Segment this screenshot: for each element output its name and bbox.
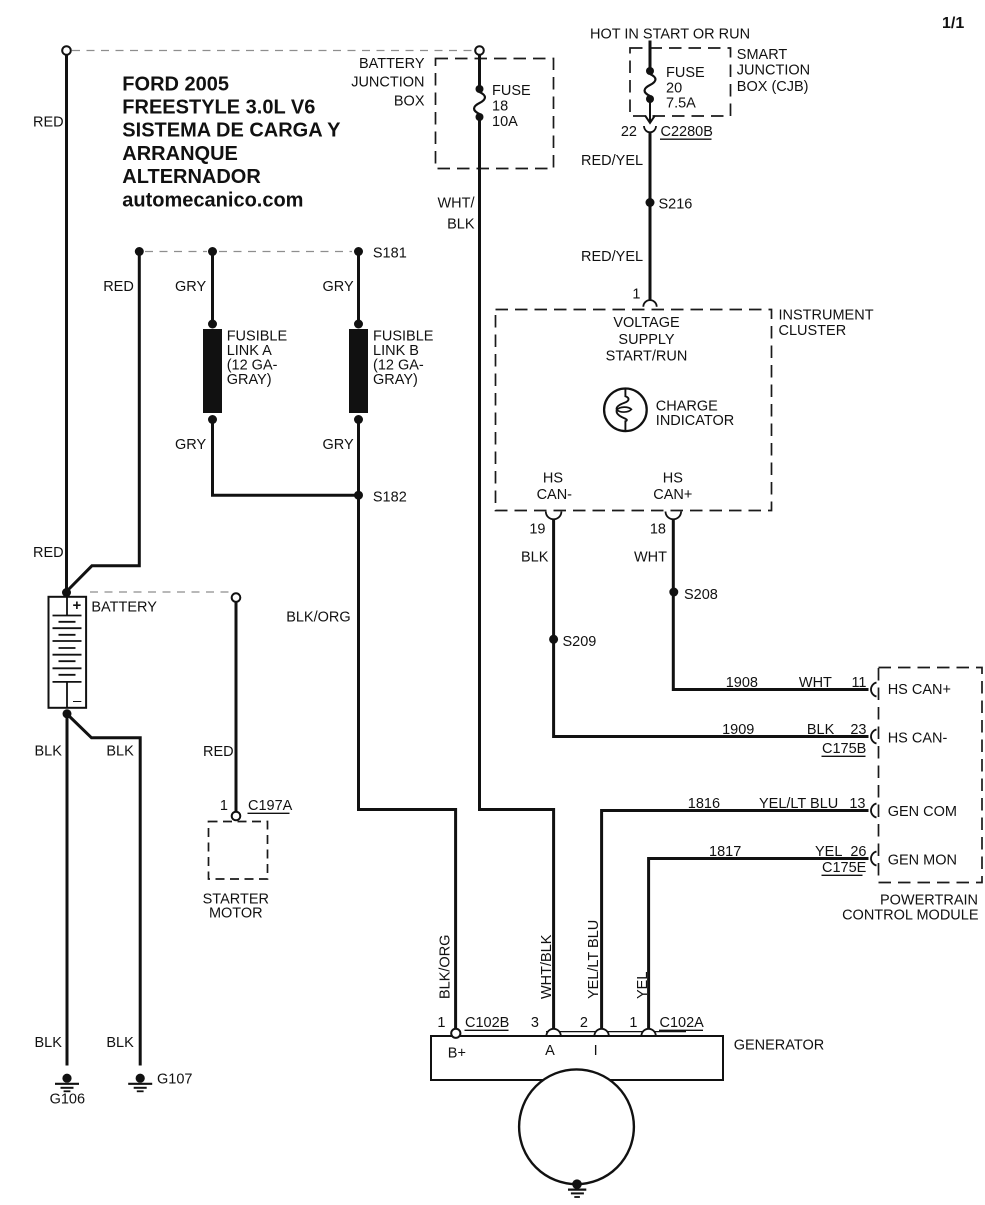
svg-text:10A: 10A [492, 114, 518, 130]
svg-text:GRY: GRY [323, 437, 354, 453]
svg-text:BLK/ORG: BLK/ORG [437, 935, 453, 999]
wire GRY to fusible link B [357, 255, 360, 322]
generator pin I dome [594, 1029, 608, 1036]
splice S181 dashed node line [145, 251, 352, 253]
svg-text:S181: S181 [373, 246, 407, 262]
svg-text:ARRANQUE: ARRANQUE [122, 143, 238, 165]
svg-text:HS CAN+: HS CAN+ [888, 682, 951, 698]
wire BLK battery to G106 [66, 714, 69, 1066]
starter motor box [209, 822, 268, 880]
svg-text:13: 13 [849, 796, 865, 812]
label charge indicator [656, 398, 734, 429]
svg-text:2: 2 [580, 1015, 588, 1031]
node circle left of battery feed [62, 46, 71, 55]
label HS CAN- [537, 470, 573, 503]
svg-text:1/1: 1/1 [942, 15, 964, 32]
svg-text:VOLTAGE: VOLTAGE [613, 315, 680, 331]
wire WHT/BLK from fuse 18 to generator pin A [480, 117, 554, 1030]
svg-text:RED: RED [203, 744, 234, 760]
fusible link A [203, 320, 222, 425]
svg-text:HS CAN-: HS CAN- [888, 731, 948, 747]
svg-text:GEN MON: GEN MON [888, 853, 957, 869]
svg-text:GEN COM: GEN COM [888, 804, 957, 820]
generator pin A dome [546, 1029, 560, 1036]
label battery junction box [351, 56, 425, 110]
PCM pin 11 cup [871, 683, 877, 697]
connector C2280B pin 22 cup [644, 126, 656, 132]
svg-text:11: 11 [851, 675, 866, 691]
wire RED to starter motor [235, 602, 238, 812]
wire YEL generator pin 1 to PCM GEN MON [649, 859, 869, 1030]
dashed node line top [72, 50, 475, 52]
fuse 20 [645, 67, 656, 103]
svg-text:CHARGE: CHARGE [656, 398, 718, 414]
svg-text:CONTROL MODULE: CONTROL MODULE [842, 908, 979, 924]
svg-text:BLK: BLK [35, 744, 63, 760]
node circle at battery junction box feed [475, 46, 484, 55]
svg-text:I: I [594, 1043, 598, 1059]
svg-text:18: 18 [650, 522, 666, 538]
svg-text:CLUSTER: CLUSTER [779, 323, 847, 339]
svg-text:ALTERNADOR: ALTERNADOR [122, 166, 261, 188]
svg-text:1817: 1817 [709, 844, 741, 860]
wire RED/YEL to instrument cluster [649, 132, 652, 301]
circuit label 1908 WHT 11 [726, 675, 867, 691]
svg-text:C175E: C175E [822, 860, 867, 876]
svg-text:26: 26 [850, 844, 866, 860]
svg-text:G106: G106 [50, 1091, 85, 1107]
PCM pin 23 cup [871, 730, 877, 744]
svg-text:GRAY): GRAY) [227, 372, 272, 388]
svg-text:1909: 1909 [722, 722, 754, 738]
svg-text:18: 18 [492, 99, 508, 115]
circuit label 1817 YEL 26 [709, 844, 867, 860]
svg-text:23: 23 [850, 722, 866, 738]
svg-text:START/RUN: START/RUN [606, 349, 688, 365]
svg-text:BLK: BLK [521, 550, 549, 566]
generator box [431, 1036, 723, 1080]
starter pin 1 circle [232, 812, 241, 821]
svg-text:YEL: YEL [815, 844, 842, 860]
ground G106 [50, 1074, 85, 1108]
svg-text:BLK: BLK [106, 1035, 134, 1051]
generator pin B+ circle [451, 1029, 460, 1038]
svg-text:RED: RED [33, 545, 64, 561]
svg-text:SISTEMA DE CARGA Y: SISTEMA DE CARGA Y [122, 120, 341, 142]
svg-text:FUSE: FUSE [666, 65, 705, 81]
svg-text:WHT/BLK: WHT/BLK [539, 934, 555, 999]
label WHT/BLK [437, 196, 475, 233]
svg-text:S209: S209 [563, 634, 597, 650]
label fuse 18 10A [492, 83, 531, 130]
wire YEL/LT BLU generator pin 2 to PCM GEN COM [602, 811, 869, 1030]
connector label C102A [659, 1015, 704, 1031]
svg-text:HOT IN START OR RUN: HOT IN START OR RUN [590, 26, 750, 42]
svg-text:WHT: WHT [634, 550, 667, 566]
label powertrain control module [842, 892, 979, 923]
label smart junction box (CJB) [737, 47, 810, 95]
wire RED left vertical [65, 55, 68, 591]
label instrument cluster [779, 308, 874, 340]
generator ground [568, 1179, 586, 1197]
svg-text:JUNCTION: JUNCTION [351, 75, 424, 91]
svg-text:7.5A: 7.5A [666, 96, 696, 112]
svg-text:FORD 2005: FORD 2005 [122, 73, 229, 95]
svg-text:FUSE: FUSE [492, 83, 531, 99]
svg-text:INSTRUMENT: INSTRUMENT [779, 308, 874, 324]
svg-text:1: 1 [437, 1015, 445, 1031]
svg-text:WHT: WHT [799, 675, 832, 691]
svg-text:+: + [73, 597, 82, 614]
starter feed node circle [232, 593, 241, 602]
splice S216 [646, 197, 693, 213]
svg-text:FREESTYLE 3.0L V6: FREESTYLE 3.0L V6 [122, 97, 315, 119]
svg-text:HS: HS [663, 470, 683, 486]
svg-text:RED/YEL: RED/YEL [581, 249, 643, 265]
circuit label 1909 BLK 23 [722, 722, 866, 738]
svg-text:BOX (CJB): BOX (CJB) [737, 79, 809, 95]
svg-text:CAN+: CAN+ [653, 487, 692, 503]
svg-text:CAN-: CAN- [537, 487, 573, 503]
svg-text:YEL/LT BLU: YEL/LT BLU [759, 796, 838, 812]
circuit label 1816 YEL/LT BLU 13 [688, 796, 866, 812]
label fuse 20 7.5A [666, 65, 705, 112]
svg-text:BLK: BLK [807, 722, 835, 738]
label voltage supply start/run [606, 315, 688, 365]
svg-text:RED: RED [33, 115, 64, 131]
svg-text:C102A: C102A [660, 1015, 705, 1031]
connector C102A line [546, 1031, 686, 1033]
smart junction box [630, 48, 731, 116]
wire into fuse 18 [478, 55, 481, 89]
svg-text:BLK/ORG: BLK/ORG [286, 610, 350, 626]
wire BLK/ORG from link B through S182 to generator B+ [359, 421, 456, 1029]
svg-text:RED/YEL: RED/YEL [581, 153, 643, 169]
splice S181 dot [354, 246, 407, 262]
svg-text:C2280B: C2280B [661, 124, 713, 140]
svg-text:BATTERY: BATTERY [91, 599, 157, 615]
wire link A bottom to S182 [213, 421, 358, 495]
svg-text:GRY: GRY [175, 279, 206, 295]
PCM pin 26 cup [871, 852, 877, 866]
svg-text:POWERTRAIN: POWERTRAIN [880, 892, 978, 908]
svg-text:HS: HS [543, 470, 563, 486]
battery [49, 597, 87, 710]
svg-text:1: 1 [632, 287, 640, 303]
title block [122, 73, 341, 211]
svg-text:1816: 1816 [688, 796, 720, 812]
svg-text:SMART: SMART [737, 47, 788, 63]
splice S182 [354, 489, 407, 505]
node dot [208, 247, 217, 256]
instrument cluster box [496, 310, 772, 511]
svg-text:C175B: C175B [822, 741, 866, 757]
svg-text:20: 20 [666, 81, 682, 97]
ground G107 [128, 1072, 192, 1092]
svg-text:A: A [545, 1043, 555, 1059]
battery negative junction dot [63, 709, 72, 718]
svg-text:BLK: BLK [106, 744, 134, 760]
connector label C197A [248, 798, 293, 814]
svg-text:1: 1 [629, 1015, 637, 1031]
wire BLK battery to G107 [67, 714, 140, 1066]
svg-text:B+: B+ [448, 1045, 466, 1061]
svg-text:3: 3 [531, 1015, 539, 1031]
svg-text:YEL/LT BLU: YEL/LT BLU [586, 920, 602, 999]
svg-text:C102B: C102B [465, 1015, 509, 1031]
svg-text:automecanico.com: automecanico.com [122, 189, 303, 211]
svg-text:BLK: BLK [35, 1035, 63, 1051]
svg-text:1908: 1908 [726, 675, 758, 691]
dashed node line battery to starter feed [90, 591, 229, 593]
svg-text:S208: S208 [684, 587, 718, 603]
cluster pin 19 cup [546, 512, 562, 520]
svg-text:S216: S216 [659, 197, 693, 213]
svg-text:G107: G107 [157, 1072, 192, 1088]
connector label C102B [465, 1015, 510, 1031]
node dot [135, 247, 144, 256]
svg-text:JUNCTION: JUNCTION [737, 63, 810, 79]
charge indicator lamp [604, 389, 647, 432]
svg-text:1: 1 [220, 798, 228, 814]
svg-text:22: 22 [621, 124, 637, 140]
connector label C2280B [660, 124, 713, 140]
wire into fuse 20 [649, 41, 652, 72]
svg-text:SUPPLY: SUPPLY [618, 332, 674, 348]
fuse 18 [474, 85, 485, 121]
cluster pin 18 cup [666, 512, 682, 520]
svg-text:INDICATOR: INDICATOR [656, 413, 734, 429]
svg-text:GRY: GRY [175, 437, 206, 453]
cluster pin 1 dome [643, 300, 656, 307]
svg-text:GRAY): GRAY) [373, 372, 418, 388]
svg-text:C197A: C197A [248, 798, 293, 814]
svg-text:S182: S182 [373, 489, 407, 505]
svg-text:19: 19 [529, 522, 545, 538]
wire WHT pin18 to PCM HS CAN+ [673, 519, 868, 689]
svg-text:MOTOR: MOTOR [209, 906, 263, 922]
splice S208 [669, 587, 718, 603]
label fusible link B [373, 329, 434, 389]
label starter motor [203, 892, 269, 922]
battery junction box [436, 59, 554, 169]
svg-text:BOX: BOX [394, 93, 425, 109]
wire RED from S181 to battery junction [67, 255, 140, 592]
PCM pin 13 cup [871, 804, 877, 818]
svg-text:WHT/: WHT/ [437, 196, 475, 212]
svg-text:RED: RED [103, 279, 134, 295]
svg-text:GENERATOR: GENERATOR [734, 1037, 825, 1053]
svg-text:YEL: YEL [635, 972, 651, 999]
connector label C175E [822, 860, 867, 876]
svg-text:BLK: BLK [447, 216, 475, 232]
wire BLK pin19 to PCM HS CAN- [554, 519, 869, 736]
fusible link B [349, 320, 368, 425]
connector label C175B [822, 741, 867, 757]
wire GRY to fusible link A [211, 255, 214, 322]
powertrain control module box [879, 668, 983, 883]
svg-text:–: – [73, 693, 82, 710]
label HS CAN+ [653, 470, 692, 503]
wire with arrowhead to pin 22 [645, 99, 655, 123]
label fusible link A [227, 329, 288, 389]
generator pin 1 dome [641, 1029, 655, 1036]
svg-text:GRY: GRY [323, 279, 354, 295]
splice S209 [549, 634, 596, 650]
battery junction dot [62, 588, 71, 597]
svg-text:BATTERY: BATTERY [359, 56, 425, 72]
generator body circle [519, 1069, 634, 1184]
